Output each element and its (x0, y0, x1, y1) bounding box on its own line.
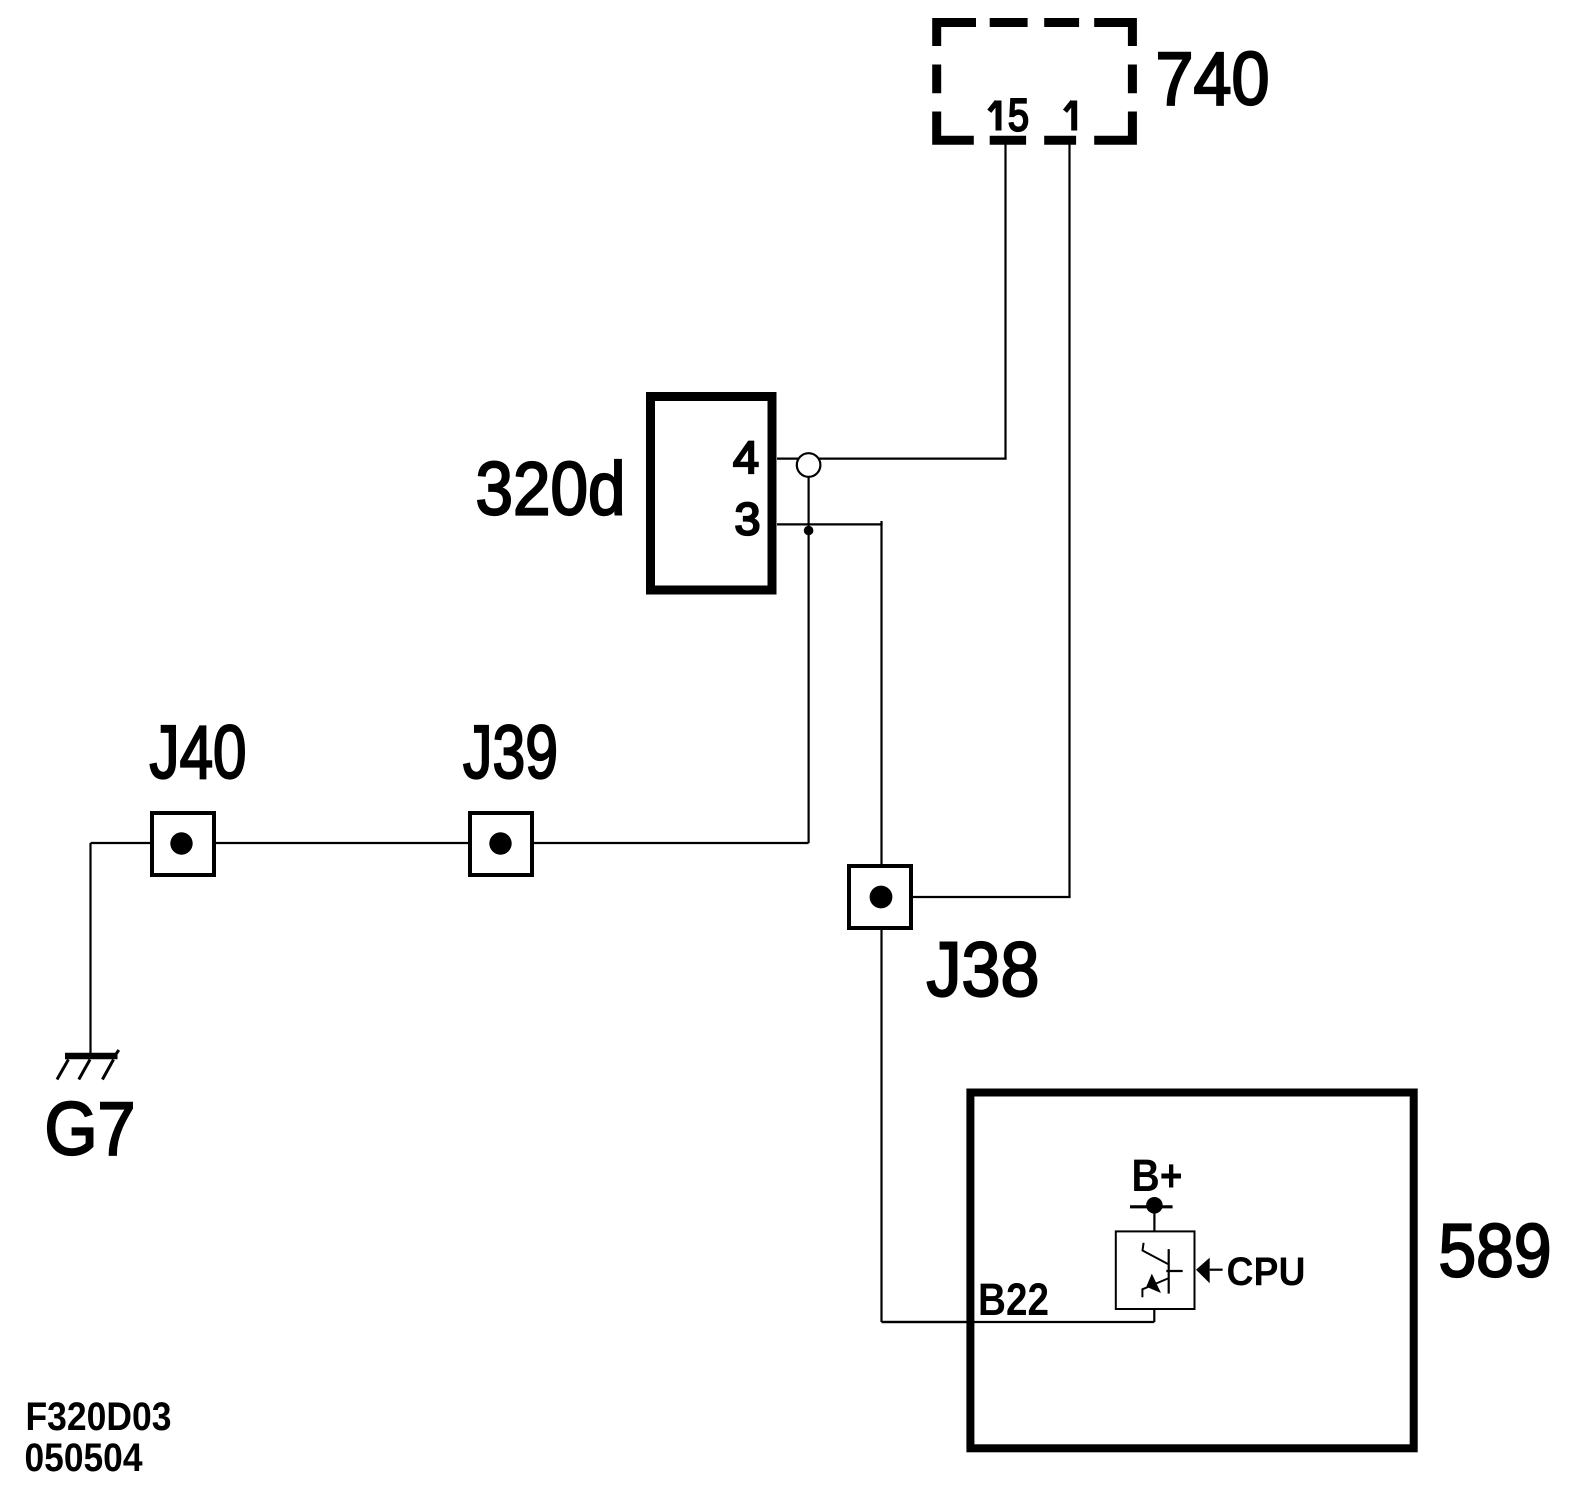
svg-text:G7: G7 (45, 1087, 136, 1171)
svg-text:589: 589 (1439, 1209, 1552, 1293)
svg-text:B22: B22 (978, 1274, 1049, 1325)
wire pin1 vertical from 740 down to J38 level (1068, 144, 1070, 897)
splice J39 square (470, 813, 532, 875)
pin 15 label of 740: digit 1 drawn (footless) (996, 101, 1002, 131)
wire vertical from circle under pin4 down to ground line (807, 462, 809, 843)
splice J38 square (849, 866, 911, 928)
wire G7 vertical down to ground symbol (89, 843, 91, 1055)
transistor base tick (1166, 1270, 1182, 1272)
svg-text:050504: 050504 (25, 1436, 144, 1480)
connector circle on pin4 wire (797, 453, 821, 477)
wire B22 inside 589 redrawn over box border (882, 1321, 1155, 1323)
transistor box (1116, 1231, 1195, 1309)
splice J40 dot (170, 832, 192, 854)
svg-text:J40: J40 (150, 710, 247, 794)
wire emitter stub to B22 wire (1153, 1309, 1155, 1322)
wire vertical pin3 through J38 down to B22 level (880, 521, 882, 1322)
svg-text:3: 3 (735, 494, 761, 545)
wire B+ vertical to transistor box (1153, 1205, 1155, 1231)
transistor base bar (1168, 1249, 1170, 1294)
B+ terminal dot (1146, 1197, 1163, 1214)
svg-text:740: 740 (1156, 37, 1270, 121)
ground symbol hatches (57, 1050, 119, 1080)
junction dot at pin3 wire and ground branch (804, 526, 814, 536)
svg-text:J38: J38 (927, 927, 1040, 1013)
wire B22 horizontal into box 589 (882, 1321, 1155, 1323)
transistor emitter arrow (1146, 1274, 1161, 1293)
transistor collector stub and diagonal (1143, 1243, 1168, 1264)
svg-text:F320D03: F320D03 (26, 1395, 172, 1439)
CPU arrow lead (1210, 1269, 1223, 1271)
wire pin15 vertical from 740 (1004, 144, 1006, 459)
wire pin4 horizontal from 320d to pin15 corner (777, 458, 1007, 460)
component 740 dashed box (937, 23, 1133, 141)
wire pin3 horizontal from 320d (777, 523, 883, 525)
svg-text:CPU: CPU (1227, 1250, 1306, 1294)
CPU arrow head (1196, 1258, 1210, 1284)
wire J38 to pin1 horizontal (882, 896, 1071, 898)
component 320d box (651, 397, 773, 591)
B+ terminal bar (1130, 1205, 1173, 1208)
splice J38 dot (870, 886, 893, 909)
svg-text:4: 4 (733, 432, 759, 483)
component 589 box (970, 1093, 1413, 1449)
ground symbol G7 bar (65, 1053, 118, 1060)
svg-text:5: 5 (1008, 90, 1029, 141)
svg-text:B+: B+ (1132, 1150, 1183, 1201)
wire emitter stub (1153, 1309, 1155, 1322)
pin 1 label of 740: digit 1 drawn (footless) (1071, 101, 1077, 131)
svg-text:J39: J39 (463, 710, 558, 794)
splice J39 dot (489, 832, 511, 854)
splice J40 square (152, 813, 214, 875)
transistor emitter diagonal and stub (1142, 1279, 1168, 1298)
svg-text:320d: 320d (476, 447, 626, 531)
wire ground horizontal G7 to vertical branch (91, 842, 809, 844)
